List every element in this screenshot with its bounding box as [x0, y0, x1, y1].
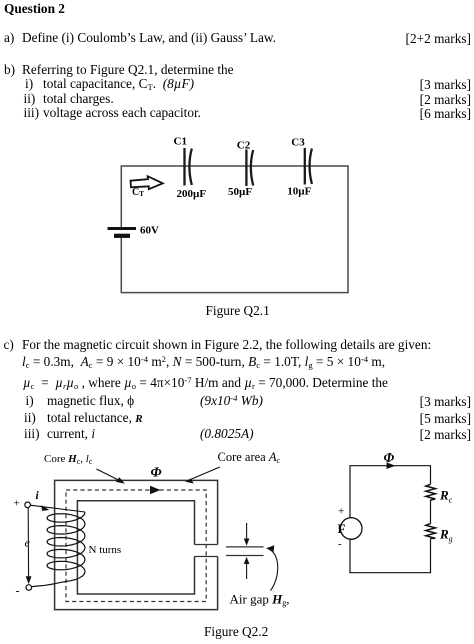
left terminal wire with down arrow: [27, 508, 29, 583]
air gap top edge: [195, 544, 218, 546]
equivalent circuit wire loop: [350, 466, 431, 573]
svg-text:+: +: [338, 506, 344, 518]
coil N turns: [32, 512, 85, 587]
air gap bottom dimension arrow: [246, 559, 248, 579]
svg-text:C2: C2: [237, 140, 251, 152]
flux path dashed loop: [66, 490, 206, 602]
svg-text:Rc: Rc: [439, 488, 453, 505]
flux direction arrowhead: [150, 486, 161, 494]
mmf source F circle: [340, 518, 362, 540]
svg-text:10µF: 10µF: [287, 186, 311, 198]
capacitor C1: [185, 148, 192, 186]
Figure Q2.1 schematic: [0, 130, 474, 315]
Figure Q2.2 schematic: [0, 448, 474, 644]
label e: [23, 536, 33, 548]
curved leader arrow to air gap: [269, 549, 278, 591]
svg-text:C3: C3: [291, 137, 305, 149]
flux arrowhead on top wire: [387, 462, 396, 469]
svg-text:Core Hc, lc: Core Hc, lc: [44, 453, 93, 466]
svg-text:-: -: [338, 538, 342, 550]
svg-text:200µF: 200µF: [177, 188, 207, 200]
wire from plus terminal to coil with current arrow: [30, 505, 85, 512]
caption Figure Q2.1: [206, 304, 270, 318]
svg-text:Air gap Hg,: Air gap Hg,: [230, 592, 290, 608]
svg-text:50µF: 50µF: [228, 186, 252, 198]
item b: [4, 63, 15, 77]
svg-text:-: -: [16, 584, 20, 598]
block arrow CT: [131, 176, 163, 189]
svg-text:Rg: Rg: [439, 527, 453, 544]
terminal minus circle: [26, 585, 32, 591]
svg-text:e: e: [25, 536, 31, 550]
air gap bottom edge: [195, 556, 218, 558]
heading: [4, 2, 65, 16]
svg-text:C1: C1: [174, 136, 187, 148]
svg-text:F: F: [338, 521, 346, 536]
capacitor C2: [246, 150, 253, 187]
reluctance Rg resistor zigzag: [426, 524, 436, 539]
item c: [4, 338, 14, 352]
svg-text:i: i: [36, 490, 40, 502]
air gap dimension extension lines: [226, 546, 264, 548]
item a: [4, 31, 14, 45]
core inner window outline with air gap: [77, 501, 194, 594]
svg-text:Core area Ac: Core area Ac: [218, 450, 281, 465]
svg-text:Φ: Φ: [384, 450, 395, 465]
air gap top dimension arrow: [246, 523, 248, 543]
svg-text:N turns: N turns: [89, 544, 122, 556]
caption Figure Q2.2: [204, 625, 268, 639]
battery 60V: [108, 229, 137, 236]
terminal plus circle: [25, 502, 31, 508]
leader arrow to core top-left: [96, 469, 122, 482]
svg-text:CT: CT: [132, 187, 144, 198]
svg-text:+: +: [14, 498, 20, 510]
wire loop rectangle: [121, 166, 348, 293]
reluctance Rc resistor zigzag: [426, 484, 436, 500]
core outer outline with air gap on right limb: [55, 480, 218, 609]
capacitor C3: [305, 148, 312, 185]
leader arrow to core top-right: [188, 467, 220, 481]
svg-text:60V: 60V: [140, 225, 159, 237]
svg-text:Φ: Φ: [151, 465, 162, 480]
